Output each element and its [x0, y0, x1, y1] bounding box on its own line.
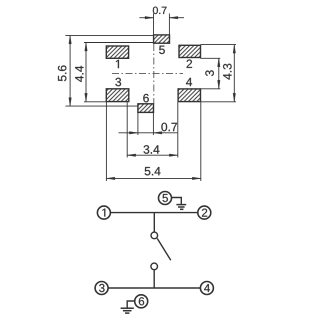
dimension 4.3 right outer — [200, 45, 236, 102]
ground top — [176, 205, 186, 210]
switch S1 — [151, 213, 171, 288]
dimension 0.7 top — [139, 7, 184, 35]
node 4 — [200, 282, 213, 295]
pad 3 — [106, 78, 129, 102]
wire node5 to ground — [172, 198, 182, 205]
pad 2 — [179, 45, 201, 68]
node 5 — [159, 192, 172, 205]
ground bottom — [121, 308, 134, 313]
node 6 — [135, 295, 148, 308]
dimension 3 right inner — [200, 58, 220, 89]
dimension 4.4 left inner — [75, 43, 153, 102]
dimension 3.4 — [127, 102, 178, 157]
node 3 — [95, 282, 108, 295]
wire 1-2 — [111, 212, 198, 214]
dimension 5.4 — [106, 102, 200, 181]
centerline horizontal — [112, 72, 183, 74]
dimension 0.7 bottom — [119, 113, 178, 135]
pad 5 — [154, 35, 170, 54]
wire node6 to ground — [127, 301, 134, 308]
pad 6 — [138, 94, 154, 113]
pad 1 — [106, 46, 128, 68]
centerline vertical — [153, 44, 155, 104]
node 2 — [198, 206, 211, 219]
wire 3-4 — [108, 287, 200, 289]
node 1 — [97, 206, 110, 219]
dimension 5.6 left — [58, 35, 154, 106]
pad 4 — [178, 78, 200, 102]
